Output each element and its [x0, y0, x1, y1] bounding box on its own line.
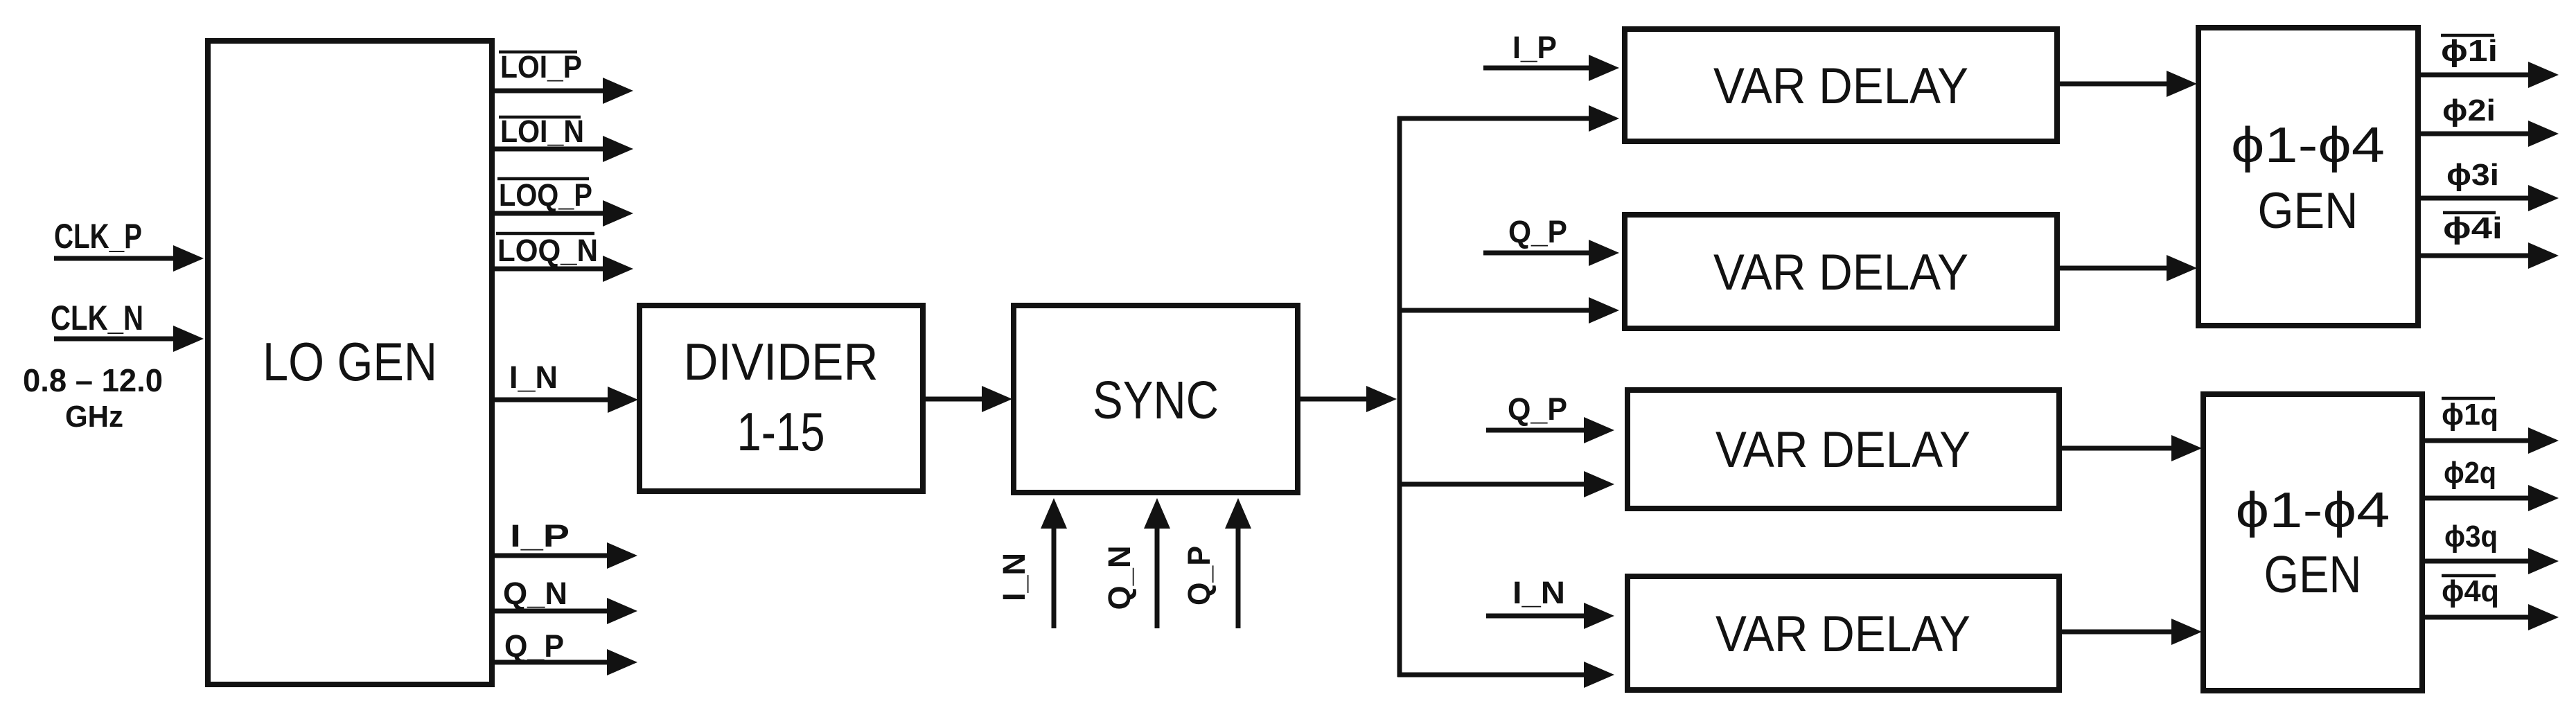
label LOI_N (overlined)	[499, 114, 584, 149]
wire I_P arrow into VAR DELAY 1	[1483, 55, 1619, 81]
svg-text:I_N: I_N	[1512, 575, 1565, 610]
wire Q_P arrow into VAR DELAY 2	[1483, 240, 1619, 266]
block phi1-phi4 GEN (Q)	[2203, 394, 2422, 691]
wire phi2q output arrow	[2423, 485, 2559, 511]
block LO GEN	[208, 41, 492, 684]
label I_P (VAR DELAY 1 input)	[1512, 30, 1557, 65]
svg-text:GEN: GEN	[2258, 183, 2358, 239]
label Q_N (LO GEN lower output)	[503, 576, 567, 611]
label I_N (SYNC bottom input, rotated)	[996, 553, 1032, 601]
wire phi1q output arrow	[2423, 427, 2559, 454]
svg-text:ϕ1-ϕ4: ϕ1-ϕ4	[2231, 118, 2385, 173]
svg-text:LOQ_P: LOQ_P	[499, 177, 592, 213]
svg-text:VAR DELAY: VAR DELAY	[1713, 245, 1968, 301]
wire phi2i output arrow	[2418, 121, 2559, 147]
wire phi3q output arrow	[2423, 548, 2559, 574]
svg-text:Q_P: Q_P	[504, 628, 564, 664]
block phi1-phi4 GEN (I)	[2198, 28, 2418, 326]
label LOQ_N (overlined)	[496, 233, 598, 268]
svg-text:I_P: I_P	[1512, 30, 1557, 65]
svg-text:CLK_N: CLK_N	[51, 299, 143, 337]
block DIVIDER 1-15	[639, 306, 923, 491]
label phi1q (overlined)	[2442, 398, 2498, 432]
wire LOQ_P output arrow	[493, 200, 633, 227]
label phi1i (overlined)	[2441, 34, 2498, 68]
svg-text:GEN: GEN	[2264, 545, 2362, 603]
wire Q_P arrow into VAR DELAY 3	[1486, 417, 1614, 443]
wire Q_P output arrow	[493, 649, 637, 675]
wire branch 2 to VAR DELAY 2	[1397, 297, 1619, 324]
svg-text:CLK_P: CLK_P	[54, 217, 142, 256]
svg-text:Q_P: Q_P	[1508, 214, 1567, 249]
wire I_N to DIVIDER arrow	[493, 387, 638, 413]
svg-text:0.8 – 12.0: 0.8 – 12.0	[23, 362, 163, 398]
wire LOI_P output arrow	[493, 78, 633, 104]
wire phi1i output arrow	[2418, 62, 2559, 88]
block VAR DELAY 2	[1625, 215, 2057, 328]
wire CLK_N input arrow	[54, 326, 204, 352]
svg-text:VAR DELAY: VAR DELAY	[1713, 58, 1968, 114]
svg-text:ϕ1-ϕ4: ϕ1-ϕ4	[2236, 483, 2390, 538]
svg-text:LOI_N: LOI_N	[500, 114, 584, 149]
svg-text:DIVIDER: DIVIDER	[684, 333, 879, 391]
wire phi4i output arrow	[2418, 242, 2559, 269]
wire Q_N output arrow	[493, 598, 637, 624]
label LOQ_P (overlined)	[497, 177, 592, 213]
svg-text:LOQ_N: LOQ_N	[497, 233, 598, 268]
wire branch 1 to VAR DELAY 1	[1397, 105, 1619, 132]
wire VAR DELAY 1 to GEN I arrow	[2057, 71, 2197, 97]
wire phi4q output arrow	[2423, 604, 2559, 630]
svg-text:I_N: I_N	[509, 360, 558, 395]
block VAR DELAY 1	[1625, 29, 2057, 141]
svg-text:1-15: 1-15	[737, 401, 825, 462]
label phi3i	[2446, 158, 2499, 192]
label phi3q	[2444, 520, 2498, 554]
svg-text:I_N: I_N	[996, 553, 1032, 601]
wire distribution trunk (vertical)	[1397, 116, 1402, 677]
svg-text:LO GEN: LO GEN	[263, 331, 437, 392]
svg-text:I_P: I_P	[510, 518, 570, 554]
label phi2i	[2442, 94, 2496, 127]
svg-text:Q_N: Q_N	[1102, 546, 1137, 610]
svg-text:ϕ1q: ϕ1q	[2442, 398, 2498, 432]
svg-text:VAR DELAY: VAR DELAY	[1715, 422, 1970, 478]
wire branch 3 to VAR DELAY 3	[1397, 471, 1614, 497]
svg-text:ϕ2q: ϕ2q	[2444, 456, 2496, 490]
label LOI_P (overlined)	[499, 49, 582, 85]
svg-text:VAR DELAY: VAR DELAY	[1715, 606, 1970, 662]
wire phi3i output arrow	[2418, 185, 2559, 211]
label I_N (LO GEN to DIVIDER)	[509, 360, 558, 395]
svg-text:SYNC: SYNC	[1093, 371, 1219, 430]
svg-text:Q_N: Q_N	[503, 576, 567, 611]
wire SYNC bottom input 1 (up arrow)	[1041, 498, 1067, 628]
label I_N (VAR DELAY 4 input)	[1512, 575, 1565, 610]
wire I_P output arrow	[493, 542, 637, 569]
wire LOQ_N output arrow	[493, 256, 633, 282]
wire CLK_P input arrow	[54, 245, 204, 272]
label Q_P (VAR DELAY 2 input)	[1508, 214, 1567, 249]
svg-text:ϕ2i: ϕ2i	[2442, 94, 2496, 127]
label phi2q	[2444, 456, 2496, 490]
wire VAR DELAY 2 to GEN I arrow	[2057, 255, 2197, 281]
wire VAR DELAY 4 to GEN Q arrow	[2059, 619, 2202, 645]
svg-text:ϕ4q: ϕ4q	[2442, 574, 2499, 608]
label CLK_P	[54, 217, 142, 256]
label phi4i (overlined)	[2443, 211, 2503, 245]
block VAR DELAY 3	[1627, 390, 2059, 508]
label CLK_N	[51, 299, 143, 337]
wire SYNC bottom input 3 (up arrow)	[1225, 498, 1251, 628]
svg-text:ϕ3i: ϕ3i	[2446, 158, 2499, 192]
wire SYNC bottom input 2 (up arrow)	[1144, 498, 1170, 628]
block SYNC	[1014, 306, 1298, 493]
block VAR DELAY 4	[1627, 576, 2059, 690]
label phi4q (overlined)	[2442, 574, 2499, 608]
label Q_P (LO GEN lower output)	[504, 628, 564, 664]
label Q_N (SYNC bottom input, rotated)	[1102, 546, 1137, 610]
svg-text:ϕ1i: ϕ1i	[2441, 34, 2498, 68]
label 0.8 - 12.0 GHz	[23, 362, 163, 434]
label I_P (LO GEN lower output)	[510, 518, 570, 554]
wire DIVIDER to SYNC arrow	[924, 386, 1012, 412]
wire LOI_N output arrow	[493, 136, 633, 162]
svg-text:Q_P: Q_P	[1181, 546, 1217, 605]
wire VAR DELAY 3 to GEN Q arrow	[2059, 435, 2202, 461]
label Q_P (VAR DELAY 3 input)	[1508, 391, 1567, 427]
svg-text:ϕ4i: ϕ4i	[2443, 211, 2503, 245]
svg-text:Q_P: Q_P	[1508, 391, 1567, 427]
svg-text:LOI_P: LOI_P	[500, 49, 582, 85]
svg-text:ϕ3q: ϕ3q	[2444, 520, 2498, 554]
wire SYNC output to trunk arrow	[1299, 386, 1397, 412]
label Q_P (SYNC bottom input, rotated)	[1181, 546, 1217, 605]
svg-text:GHz: GHz	[65, 400, 123, 434]
wire I_N arrow into VAR DELAY 4	[1486, 603, 1614, 629]
wire branch 4 to VAR DELAY 4	[1397, 662, 1614, 688]
